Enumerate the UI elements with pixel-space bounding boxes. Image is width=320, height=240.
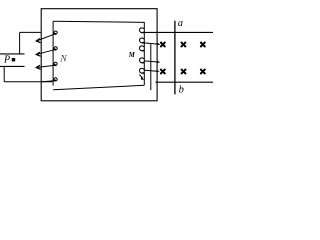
primary coil turn 3 xyxy=(36,62,57,69)
conducting rod on rails xyxy=(174,21,176,95)
rail a: top horizontal line from secondary coil to right edge xyxy=(144,31,213,33)
svg-text:P: P xyxy=(3,54,10,65)
primary coil turn 2 xyxy=(36,47,57,57)
transformer core inner outline: top edge xyxy=(53,21,145,22)
primary coil turn 4 xyxy=(42,78,57,82)
secondary coil bump 3 xyxy=(139,46,144,51)
svg-text:M: M xyxy=(128,52,136,59)
magnetic field cross row2 col1 xyxy=(160,69,166,75)
wire: bottom wire from source P to primary coil xyxy=(4,81,52,83)
secondary coil bottom tail hook xyxy=(139,75,142,79)
secondary coil tap wire 2 with arrow tip xyxy=(144,43,157,44)
source P top plate xyxy=(0,53,25,55)
svg-text:a: a xyxy=(178,18,183,29)
wire: top wire from source P to primary coil xyxy=(20,31,41,33)
transformer core inner outline: left edge xyxy=(52,21,54,85)
secondary coil tap wire 4 with arrow tip xyxy=(144,61,157,62)
secondary coil bump 2 xyxy=(139,38,144,43)
secondary coil vertical wire xyxy=(143,22,145,85)
secondary coil bump 4 xyxy=(139,58,144,63)
svg-text:b: b xyxy=(179,85,184,96)
transformer core outer rectangle xyxy=(41,9,157,101)
transformer core inner outline: bottom edge xyxy=(53,85,144,90)
magnetic field cross row2 col3 xyxy=(200,69,206,75)
label P square dot xyxy=(12,58,15,61)
wire: left vertical from bottom plate down xyxy=(3,66,5,81)
magnetic field cross row1 col2 xyxy=(181,42,187,48)
transformer core inner outline: right edge xyxy=(150,44,152,90)
wire: left vertical from top wire down to source plate xyxy=(19,32,21,54)
source P bottom plate xyxy=(0,65,25,67)
magnetic field cross row2 col2 xyxy=(181,69,187,75)
magnetic field cross row1 col3 xyxy=(200,42,206,48)
magnetic field cross row1 col1 xyxy=(160,42,166,48)
svg-text:N: N xyxy=(59,55,67,65)
primary coil turn 1 xyxy=(36,31,57,43)
secondary coil bump 1 xyxy=(139,28,144,33)
secondary coil bump 5 xyxy=(139,68,144,73)
secondary coil tap wire 5 with arrow tip xyxy=(144,70,157,71)
rail b: bottom horizontal line to right edge xyxy=(155,81,213,83)
